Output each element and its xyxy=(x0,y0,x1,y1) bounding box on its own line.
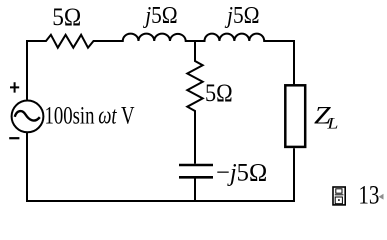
svg-text:5Ω: 5Ω xyxy=(205,80,233,107)
svg-text:L: L xyxy=(326,116,338,133)
svg-text:j5Ω: j5Ω xyxy=(143,3,178,29)
svg-text:5Ω: 5Ω xyxy=(52,4,81,31)
svg-text:13: 13 xyxy=(358,181,379,210)
svg-text:100sin ωt V: 100sin ωt V xyxy=(45,103,135,130)
svg-text:−j5Ω: −j5Ω xyxy=(216,160,267,187)
svg-text:j5Ω: j5Ω xyxy=(224,3,259,29)
